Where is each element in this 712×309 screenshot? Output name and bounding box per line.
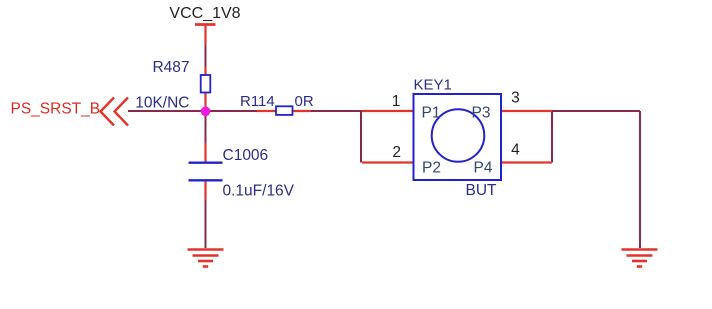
svg-text:KEY1: KEY1 <box>414 77 452 94</box>
svg-text:BUT: BUT <box>466 182 498 199</box>
svg-text:0.1uF/16V: 0.1uF/16V <box>223 183 295 200</box>
svg-text:10K/NC: 10K/NC <box>135 95 189 112</box>
svg-text:VCC_1V8: VCC_1V8 <box>169 5 240 22</box>
svg-text:0R: 0R <box>295 93 314 110</box>
svg-text:2: 2 <box>392 144 401 161</box>
svg-text:1: 1 <box>392 93 401 110</box>
svg-text:PS_SRST_B: PS_SRST_B <box>11 101 101 118</box>
svg-text:C1006: C1006 <box>223 147 269 164</box>
svg-text:R487: R487 <box>152 59 189 76</box>
svg-text:P4: P4 <box>474 160 493 177</box>
svg-text:R114: R114 <box>240 93 275 110</box>
svg-text:3: 3 <box>511 90 520 107</box>
svg-text:P1: P1 <box>422 105 441 122</box>
svg-text:P3: P3 <box>472 105 491 122</box>
svg-text:4: 4 <box>511 142 520 159</box>
svg-text:P2: P2 <box>422 160 441 177</box>
